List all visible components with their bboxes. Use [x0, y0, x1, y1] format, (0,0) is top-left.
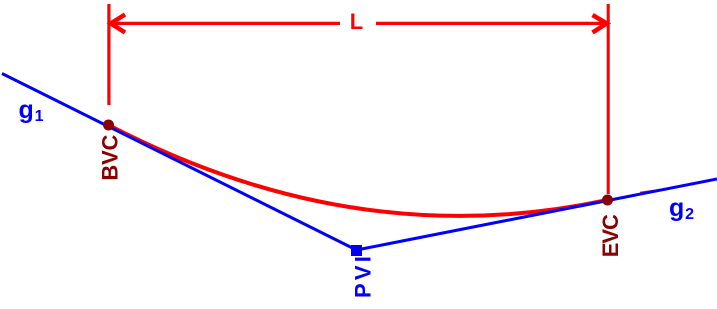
right arrowhead	[593, 15, 607, 33]
svg-text:L: L	[350, 9, 363, 34]
node EVC marker (dark red dot)	[602, 195, 613, 206]
red tangent extension past EVC	[640, 189, 668, 193]
svg-text:BVC: BVC	[97, 134, 122, 180]
dimension extension line at EVC	[607, 4, 610, 194]
dimension line right segment	[376, 22, 607, 25]
red parabolic vertical curve BVC to EVC	[109, 125, 608, 216]
svg-text:g1: g1	[19, 96, 44, 125]
dimension line left segment	[111, 22, 340, 25]
dimension extension line at BVC	[107, 4, 110, 105]
wire: blue tangent grade line g1 (to PVI) and g2 (from PVI)	[2, 74, 717, 251]
node BVC marker (dark red dot)	[103, 120, 114, 131]
svg-text:g2: g2	[669, 194, 694, 223]
node PVI marker (blue square)	[351, 245, 362, 256]
svg-text:EVC: EVC	[598, 214, 623, 257]
svg-text:PVI: PVI	[350, 253, 375, 298]
left arrowhead	[111, 15, 125, 33]
